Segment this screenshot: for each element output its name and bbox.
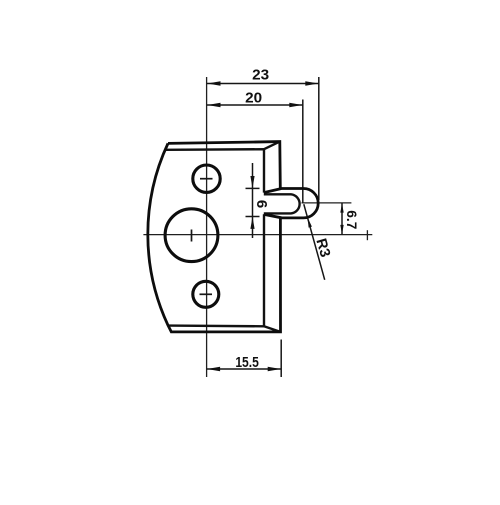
svg-text:6.7: 6.7 — [344, 210, 360, 229]
svg-text:6: 6 — [253, 200, 270, 208]
svg-text:20: 20 — [245, 90, 262, 107]
svg-text:15.5: 15.5 — [235, 354, 259, 371]
svg-text:23: 23 — [252, 67, 269, 84]
